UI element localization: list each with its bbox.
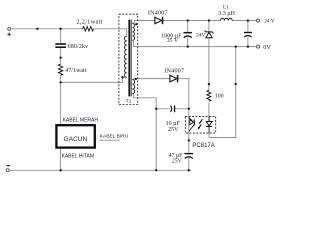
inductor L1 3.3uH <box>221 18 233 20</box>
gacun module box <box>56 125 94 147</box>
wire secondary bottom to diode D2 <box>132 78 169 81</box>
node snubber bottom <box>59 81 61 83</box>
svg-text:KABEL BIRU: KABEL BIRU <box>100 134 129 140</box>
wire D2 output down <box>178 79 189 109</box>
transformer T1 box <box>119 14 138 104</box>
transformer secondary top winding <box>132 24 134 41</box>
svg-text:0V: 0V <box>263 44 271 51</box>
svg-text:KABEL HITAM: KABEL HITAM <box>62 154 95 160</box>
zener diode 24V <box>205 31 214 34</box>
resistor 47/1watt <box>59 64 63 75</box>
svg-text:L1: L1 <box>223 5 229 11</box>
svg-text:IN4007: IN4007 <box>148 11 168 17</box>
wire resistor to transformer primary <box>93 29 126 36</box>
opto LED <box>189 118 193 121</box>
node C3 top <box>247 19 249 21</box>
wire C4 row <box>156 108 189 110</box>
capacitor 680/2kv <box>55 43 66 45</box>
node snubber top <box>59 28 61 30</box>
wire opto emitter return <box>209 47 236 138</box>
node secondary bottom dot <box>135 78 137 80</box>
node secondary top dot <box>135 23 137 25</box>
svg-text:PC817A: PC817A <box>192 143 214 149</box>
wire C3 stubs <box>247 21 249 47</box>
node bottom rail left branch <box>155 169 157 171</box>
wire bottom rail <box>9 169 191 171</box>
node bottom rail right <box>188 169 190 171</box>
node emitter line <box>235 83 237 85</box>
diode D2 IN4007 <box>170 75 177 82</box>
svg-text:24 V: 24 V <box>264 18 275 24</box>
svg-text:47/1watt: 47/1watt <box>65 68 87 74</box>
svg-text:25V: 25V <box>168 127 179 133</box>
transformer primary winding <box>124 36 126 77</box>
resistor 100 <box>207 90 211 101</box>
terminal 0V <box>257 45 260 48</box>
diode D1 IN4007 <box>155 17 162 24</box>
node primary dot <box>121 76 123 78</box>
capacitor output filter <box>244 32 252 33</box>
svg-text:25V: 25V <box>172 158 183 164</box>
wire top input rail <box>11 28 83 30</box>
node zener top <box>208 19 210 21</box>
optocoupler PC817A box <box>185 116 215 133</box>
node main wire junction <box>36 28 38 30</box>
svg-text:24V: 24V <box>196 33 206 39</box>
resistor 2,2/1watt <box>83 27 94 31</box>
capacitor 10uF 25V <box>170 106 171 112</box>
terminal 24V <box>257 19 260 22</box>
svg-text:3.3 µH: 3.3 µH <box>218 11 235 17</box>
node C2 top <box>187 19 189 21</box>
opto light arrows <box>199 119 202 128</box>
node C2 bottom <box>187 45 189 47</box>
transformer secondary bottom winding <box>132 80 134 94</box>
node bottom rail gacun <box>59 169 61 171</box>
svg-text:2,2/1watt: 2,2/1watt <box>76 18 102 25</box>
node C3 bottom <box>247 45 249 47</box>
svg-text:35 V: 35 V <box>166 38 178 44</box>
wire opto anode line down <box>188 109 190 171</box>
terminal - (DC input negative) <box>6 169 9 172</box>
svg-text:IN4007: IN4007 <box>164 69 184 75</box>
wire snubber branch down <box>60 29 62 125</box>
wire 24V rail right <box>232 20 256 22</box>
node C4 left <box>155 108 157 110</box>
opto photodiode <box>208 116 210 121</box>
svg-text:GACUN: GACUN <box>63 136 87 143</box>
svg-text:680/2kv: 680/2kv <box>68 44 89 50</box>
terminal + (DC input positive) <box>8 27 11 30</box>
svg-text:T1: T1 <box>126 98 132 104</box>
wire C2 stubs <box>187 21 189 47</box>
node emitter rail <box>235 45 237 47</box>
wire left branch to bottom rail <box>155 109 157 171</box>
svg-text:KABEL MERAH: KABEL MERAH <box>63 117 99 123</box>
node C4 right <box>188 108 190 110</box>
node zener resistor <box>208 83 210 85</box>
transformer core <box>128 20 130 97</box>
wire gacun black lead down <box>59 148 61 171</box>
svg-text:100: 100 <box>215 93 224 99</box>
node snubber mid <box>59 56 61 58</box>
node opto cathode <box>188 139 190 141</box>
wire zener chain vertical <box>208 21 210 122</box>
capacitor 1000uF 35V <box>184 32 192 34</box>
capacitor 47uF 25V <box>184 153 193 154</box>
wire secondary top to 24V rail <box>132 21 154 24</box>
wire 24V rail mid <box>162 20 220 22</box>
wire kabel biru stub <box>100 139 120 141</box>
wire primary bottom return <box>61 77 127 82</box>
wire secondary bottom lower lead <box>132 94 156 109</box>
wire 0V rail <box>132 40 256 46</box>
